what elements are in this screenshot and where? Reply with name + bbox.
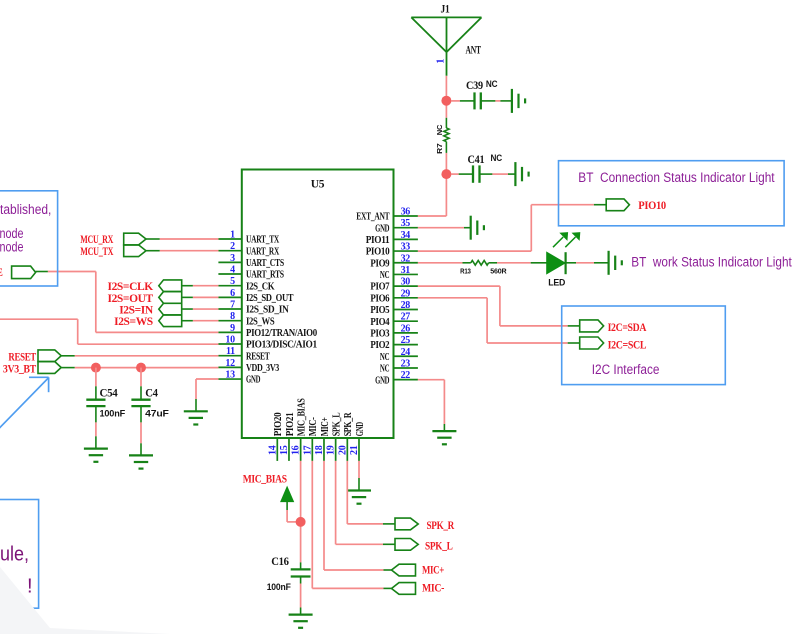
wire C16 to ground bbox=[300, 577, 302, 615]
svg-text:MIC+: MIC+ bbox=[422, 564, 444, 576]
power port MIC_BIAS bbox=[243, 474, 294, 510]
svg-text:4: 4 bbox=[230, 265, 235, 276]
svg-text:NC: NC bbox=[435, 124, 444, 135]
port SPK_R bbox=[395, 518, 455, 532]
svg-text:node: node bbox=[0, 240, 24, 255]
wire MCU_TX to pin 2 bbox=[146, 250, 218, 252]
svg-text:MIC+: MIC+ bbox=[320, 417, 331, 436]
U5 pin 15 PIO21 bbox=[279, 413, 296, 461]
wire MCU_RX to pin 1 bbox=[146, 238, 218, 240]
svg-text:I2S_SD_IN: I2S_SD_IN bbox=[246, 305, 289, 316]
svg-text:EXT_ANT: EXT_ANT bbox=[356, 212, 389, 223]
U5 pin 36 EXT_ANT bbox=[356, 207, 418, 223]
port I2S=WS bbox=[114, 315, 182, 328]
svg-text:I2S_CK: I2S_CK bbox=[246, 281, 275, 292]
U5 pin 22 GND bbox=[375, 370, 418, 386]
svg-text:I2C=SDA: I2C=SDA bbox=[608, 322, 647, 334]
U5 pin 11 RESET bbox=[218, 346, 269, 362]
note box bottom-left (cut at edge) bbox=[0, 500, 39, 609]
capacitor C16 bbox=[267, 556, 311, 593]
svg-text:MIC_BIAS: MIC_BIAS bbox=[296, 398, 307, 436]
wire pin 33 to PIO10 port bbox=[418, 205, 606, 251]
U5 pin 1 UART_TX bbox=[218, 230, 279, 246]
svg-text:16: 16 bbox=[291, 445, 302, 455]
U5 pin 19 SPK_L bbox=[326, 412, 343, 460]
U5 pin 4 UART_RTS bbox=[218, 265, 284, 281]
capacitor C4 bbox=[131, 388, 169, 420]
svg-text:GND: GND bbox=[375, 375, 390, 386]
svg-text:node: node bbox=[0, 226, 24, 241]
U5 pin 6 I2S_SD_OUT bbox=[218, 288, 293, 304]
U5 pin 20 SPK_R bbox=[337, 412, 354, 461]
port I2C-SCL bbox=[580, 337, 647, 351]
wire C41 to ground bbox=[480, 173, 516, 175]
U5 pin 30 PIO7 bbox=[370, 277, 418, 293]
wire pin12 net to C54 bbox=[95, 368, 97, 400]
wire junction to C39 bbox=[451, 100, 475, 102]
wire 3V3_BT to pin 12 bbox=[61, 367, 218, 369]
wire I2S=CLK to pin 5 bbox=[182, 285, 219, 287]
svg-text:24: 24 bbox=[401, 347, 411, 358]
svg-text:PIO11: PIO11 bbox=[366, 235, 390, 246]
U5 pin 21 GND bbox=[349, 422, 366, 461]
svg-text:PIO2: PIO2 bbox=[370, 340, 389, 351]
ground at C39 bbox=[512, 89, 525, 113]
svg-text:PIO3: PIO3 bbox=[370, 329, 389, 340]
svg-text:PIO13/DISC/AIO1: PIO13/DISC/AIO1 bbox=[246, 340, 317, 351]
U5 pin 26 PIO3 bbox=[370, 323, 418, 339]
U5 pin 25 PIO2 bbox=[370, 335, 418, 351]
svg-text:BT Connection Status Indicato: BT Connection Status Indicator Light bbox=[578, 170, 775, 185]
svg-text:NC: NC bbox=[380, 270, 389, 281]
annotation arrow to 3V3_BT bbox=[0, 377, 49, 431]
U5 pin 17 MIC- bbox=[302, 417, 319, 461]
svg-text:MIC-: MIC- bbox=[422, 583, 444, 595]
U5 pin 9 PIO12/TRAN/AIO0 bbox=[218, 323, 317, 339]
svg-text:PIO5: PIO5 bbox=[370, 305, 389, 316]
port SPK_L bbox=[395, 539, 453, 553]
svg-text:20: 20 bbox=[337, 445, 348, 455]
wire pin 22 to ground bbox=[418, 380, 445, 431]
svg-text:18: 18 bbox=[314, 445, 325, 455]
svg-text:I2S=CLK: I2S=CLK bbox=[108, 281, 154, 293]
capacitor C54 bbox=[86, 388, 125, 420]
U5 pin 8 I2S_WS bbox=[218, 311, 274, 327]
svg-text:I2S=OUT: I2S=OUT bbox=[108, 293, 154, 305]
svg-text:5: 5 bbox=[230, 276, 235, 287]
wire C4 to ground bbox=[140, 406, 142, 455]
svg-text:23: 23 bbox=[401, 358, 411, 369]
svg-text:27: 27 bbox=[401, 312, 411, 323]
U5 pin 23 NC bbox=[380, 358, 418, 374]
ground at C54 bbox=[84, 449, 108, 462]
svg-text:BT work Status Indicator Ligh: BT work Status Indicator Light bbox=[631, 255, 792, 270]
U5 pin 27 PIO4 bbox=[370, 312, 418, 328]
wire I2S=OUT to pin 6 bbox=[182, 296, 219, 298]
wire antenna to EXT_ANT bbox=[418, 76, 447, 216]
port E (cut at left edge) bbox=[0, 266, 36, 279]
svg-text:1: 1 bbox=[230, 230, 235, 241]
wire pin 35 to ground bbox=[418, 227, 471, 229]
svg-text:26: 26 bbox=[401, 323, 411, 334]
svg-text:21: 21 bbox=[349, 445, 360, 455]
svg-text:ANT: ANT bbox=[466, 45, 482, 57]
svg-text:33: 33 bbox=[401, 242, 411, 253]
svg-text:100nF: 100nF bbox=[100, 409, 126, 420]
svg-text:22: 22 bbox=[401, 370, 411, 381]
svg-text:30: 30 bbox=[401, 277, 411, 288]
svg-text:ule,: ule, bbox=[0, 544, 29, 566]
svg-text:PIO6: PIO6 bbox=[370, 293, 389, 304]
U5 pin 28 PIO5 bbox=[370, 300, 418, 316]
ground at C41 bbox=[515, 162, 528, 186]
port I2S=OUT bbox=[108, 292, 182, 305]
svg-text:11: 11 bbox=[226, 346, 235, 357]
svg-text:PIO10: PIO10 bbox=[638, 200, 666, 212]
wire RESET to pin 11 bbox=[61, 355, 218, 357]
note box: BT Connection Status Indicator Light bbox=[559, 161, 785, 226]
wire LED to ground bbox=[566, 262, 609, 264]
resistor R13 bbox=[460, 261, 507, 276]
svg-text:SPK_L: SPK_L bbox=[425, 541, 453, 553]
svg-text:NC: NC bbox=[380, 352, 389, 363]
U5 pin 32 PIO9 bbox=[370, 253, 418, 269]
svg-text:17: 17 bbox=[302, 445, 313, 455]
ground at LED bbox=[609, 251, 622, 275]
svg-text:35: 35 bbox=[401, 218, 411, 229]
wire pin 19 to SPK_L bbox=[336, 461, 395, 544]
svg-text:1: 1 bbox=[436, 59, 447, 64]
node junction at C4 bbox=[136, 363, 146, 373]
ground at pin 21 bbox=[347, 491, 371, 504]
capacitor C41 bbox=[468, 153, 503, 183]
svg-text:I2S=IN: I2S=IN bbox=[119, 304, 154, 316]
svg-text:25: 25 bbox=[401, 335, 411, 346]
U5 pin 2 UART_RX bbox=[218, 241, 279, 257]
port MIC+ bbox=[392, 564, 445, 576]
wire pin 20 to SPK_R bbox=[347, 461, 395, 524]
svg-text:PIO10: PIO10 bbox=[366, 247, 390, 258]
svg-text:RESET: RESET bbox=[246, 351, 270, 362]
LED D1 bbox=[547, 233, 580, 289]
svg-text:GND: GND bbox=[375, 223, 390, 234]
svg-text:LED: LED bbox=[548, 278, 565, 289]
U5 pin 5 I2S_CK bbox=[218, 276, 275, 292]
capacitor C39 bbox=[466, 79, 498, 110]
U5 pin 35 GND bbox=[375, 218, 418, 234]
svg-text:UART_CTS: UART_CTS bbox=[246, 258, 284, 269]
wire pin 30 to I2C-SDA bbox=[418, 286, 580, 326]
wire I2S=WS to pin 8 bbox=[182, 320, 219, 322]
svg-text:tablished,: tablished, bbox=[0, 202, 51, 217]
note box: I2C Interface bbox=[562, 306, 726, 385]
U5 pin 34 PIO11 bbox=[366, 230, 418, 246]
svg-text:13: 13 bbox=[225, 370, 235, 381]
wire pin 21 to ground bbox=[358, 461, 360, 491]
wire pin 17 to MIC- bbox=[312, 461, 391, 589]
svg-text:C54: C54 bbox=[100, 388, 119, 400]
svg-text:32: 32 bbox=[401, 253, 411, 264]
wire junction to C41 bbox=[451, 173, 473, 175]
svg-text:MCU_RX: MCU_RX bbox=[80, 234, 114, 246]
svg-text:R7: R7 bbox=[435, 143, 444, 154]
svg-text:R13: R13 bbox=[460, 266, 471, 275]
svg-text:3V3_BT: 3V3_BT bbox=[3, 364, 37, 376]
svg-text:10: 10 bbox=[225, 335, 235, 346]
svg-text:100nF: 100nF bbox=[267, 582, 291, 593]
U5 pin 16 MIC_BIAS bbox=[291, 398, 308, 461]
svg-text:560R: 560R bbox=[490, 266, 507, 275]
svg-text:I2C=SCL: I2C=SCL bbox=[608, 339, 647, 351]
svg-text:28: 28 bbox=[401, 300, 411, 311]
svg-text:I2S_SD_OUT: I2S_SD_OUT bbox=[246, 293, 294, 304]
node junction at R7 bottom bbox=[441, 169, 451, 179]
svg-text:J1: J1 bbox=[441, 3, 450, 15]
svg-text:8: 8 bbox=[230, 311, 235, 322]
ground at C4 bbox=[129, 455, 153, 468]
svg-text:C16: C16 bbox=[271, 556, 289, 568]
svg-text:UART_RX: UART_RX bbox=[246, 246, 280, 257]
svg-text:NC: NC bbox=[380, 364, 389, 375]
wire MIC_BIAS to junction bbox=[287, 510, 301, 522]
svg-text:SPK_R: SPK_R bbox=[427, 520, 455, 532]
port I2C-SDA bbox=[580, 320, 647, 334]
svg-text:PIO20: PIO20 bbox=[273, 413, 284, 437]
wire R13 to LED bbox=[497, 262, 547, 264]
svg-text:7: 7 bbox=[230, 300, 235, 311]
wire pin 32 to R13 bbox=[418, 262, 463, 264]
svg-text:VDD_3V3: VDD_3V3 bbox=[246, 363, 279, 374]
U5 pin 7 I2S_SD_IN bbox=[218, 300, 289, 316]
svg-text:I2S_WS: I2S_WS bbox=[246, 316, 275, 327]
port I2S=CLK bbox=[108, 280, 182, 293]
svg-text:MIC_BIAS: MIC_BIAS bbox=[243, 474, 287, 486]
wire pin 13 to ground bbox=[196, 379, 218, 411]
ground at pin 13 bbox=[184, 411, 208, 424]
svg-text:GND: GND bbox=[355, 422, 366, 437]
resistor R7 bbox=[435, 118, 449, 154]
svg-text:9: 9 bbox=[230, 323, 235, 334]
svg-text:I2C Interface: I2C Interface bbox=[592, 362, 660, 377]
ground at C16 bbox=[289, 615, 313, 628]
ground at pin 35 bbox=[471, 216, 484, 240]
IC U5 bbox=[242, 170, 394, 439]
port MIC- bbox=[392, 583, 445, 595]
svg-text:31: 31 bbox=[401, 265, 411, 276]
svg-text:C41: C41 bbox=[468, 154, 485, 166]
ground at pin 22 bbox=[432, 431, 456, 444]
port RESET bbox=[8, 350, 61, 364]
svg-text:MCU_TX: MCU_TX bbox=[80, 246, 114, 258]
U5 pin 31 NC bbox=[380, 265, 418, 281]
svg-text:U5: U5 bbox=[311, 179, 325, 191]
port 3V3_BT (cut at left edge) bbox=[3, 362, 61, 376]
U5 pin 18 MIC+ bbox=[314, 417, 331, 461]
svg-text:14: 14 bbox=[267, 445, 278, 455]
svg-text:PIO9: PIO9 bbox=[370, 258, 389, 269]
U5 pin 3 UART_CTS bbox=[218, 253, 284, 269]
port I2S=IN bbox=[119, 303, 181, 316]
wire C54 to ground bbox=[95, 406, 97, 449]
wire C39 to ground bbox=[481, 100, 512, 102]
svg-text:36: 36 bbox=[401, 207, 411, 218]
svg-text:C39: C39 bbox=[466, 80, 483, 92]
port PIO10 bbox=[606, 199, 666, 212]
svg-text:6: 6 bbox=[230, 288, 235, 299]
svg-text:MIC-: MIC- bbox=[308, 417, 319, 437]
wire pin12 net to C4 bbox=[140, 368, 142, 400]
svg-text:NC: NC bbox=[486, 79, 498, 90]
svg-text:PIO21: PIO21 bbox=[285, 413, 296, 437]
wire pin 16 down through C16 bbox=[300, 461, 302, 570]
svg-text:15: 15 bbox=[279, 445, 290, 455]
U5 pin 14 PIO20 bbox=[267, 413, 284, 461]
svg-text:12: 12 bbox=[225, 358, 235, 369]
svg-text:29: 29 bbox=[401, 288, 411, 299]
antenna J1 bbox=[411, 3, 481, 76]
U5 pin 10 PIO13/DISC/AIO1 bbox=[218, 335, 317, 351]
svg-text:SPK_R: SPK_R bbox=[343, 412, 354, 436]
svg-text:NC: NC bbox=[491, 153, 503, 164]
svg-text:47uF: 47uF bbox=[145, 409, 169, 420]
svg-text:PIO12/TRAN/AIO0: PIO12/TRAN/AIO0 bbox=[246, 328, 317, 339]
svg-text:UART_TX: UART_TX bbox=[246, 235, 280, 246]
svg-text:C4: C4 bbox=[145, 388, 158, 400]
svg-text:34: 34 bbox=[401, 230, 411, 241]
svg-text:PIO7: PIO7 bbox=[370, 282, 389, 293]
note box top-left (cut at edge) bbox=[0, 191, 58, 286]
U5 pin 12 VDD_3V3 bbox=[218, 358, 279, 374]
svg-text:SPK_L: SPK_L bbox=[331, 412, 342, 436]
wire from left edge to pin 10 bbox=[0, 319, 218, 344]
watermark wedge bottom-left bbox=[0, 567, 170, 634]
U5 pin 33 PIO10 bbox=[366, 242, 418, 258]
node junction at C54 bbox=[91, 363, 101, 373]
svg-text:PIO4: PIO4 bbox=[370, 317, 390, 328]
svg-text:I2S=WS: I2S=WS bbox=[114, 316, 153, 328]
wire pin 18 to MIC+ bbox=[324, 461, 392, 570]
node junction MIC_BIAS bbox=[296, 517, 306, 527]
wire port E to pin 9 bbox=[36, 272, 219, 333]
wire pin 29 to I2C-SCL bbox=[418, 298, 580, 343]
U5 pin 29 PIO6 bbox=[370, 288, 418, 304]
node junction on antenna net bbox=[441, 96, 451, 106]
svg-text:GND: GND bbox=[246, 375, 261, 386]
svg-text:RESET: RESET bbox=[8, 352, 36, 364]
port MCU_RX bbox=[80, 233, 146, 246]
svg-text:!: ! bbox=[27, 575, 33, 597]
U5 pin 24 NC bbox=[380, 347, 418, 363]
svg-text:3: 3 bbox=[230, 253, 235, 264]
svg-text:19: 19 bbox=[326, 445, 337, 455]
U5 pin 13 GND bbox=[218, 370, 260, 386]
port MCU_TX bbox=[80, 245, 146, 258]
wire I2S=IN to pin 7 bbox=[182, 308, 219, 310]
svg-text:2: 2 bbox=[230, 241, 235, 252]
svg-text:UART_RTS: UART_RTS bbox=[246, 270, 284, 281]
